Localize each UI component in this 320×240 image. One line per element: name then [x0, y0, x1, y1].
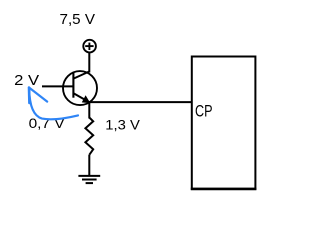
- blue arrow left barb: [28, 88, 31, 104]
- transistor base bar: [72, 72, 74, 98]
- ground: [78, 176, 100, 183]
- wire emitter node down: [88, 102, 90, 118]
- resistor R1 zigzag: [85, 118, 93, 155]
- svg-text:CP: CP: [195, 102, 213, 120]
- CP box bottom edge: [191, 188, 257, 191]
- emitter arrow head: [82, 95, 91, 103]
- transistor emitter diagonal: [74, 93, 90, 102]
- svg-text:7,5 V: 7,5 V: [60, 12, 96, 28]
- svg-text:2 V: 2 V: [14, 73, 39, 89]
- blue arrow shaft: [29, 89, 78, 119]
- wire emitter node to CP box: [89, 101, 192, 103]
- wire base lead: [42, 85, 73, 87]
- blue arrow right barb: [29, 88, 47, 102]
- svg-text:1,3 V: 1,3 V: [105, 117, 140, 133]
- svg-text:0,7 V: 0,7 V: [29, 115, 66, 131]
- transistor collector diagonal: [74, 72, 90, 79]
- supply terminal circle +: [83, 40, 96, 53]
- transistor Q1 circle: [63, 71, 97, 105]
- wire supply to collector: [88, 53, 90, 73]
- CP box: [192, 57, 256, 189]
- wire resistor to ground: [88, 155, 90, 176]
